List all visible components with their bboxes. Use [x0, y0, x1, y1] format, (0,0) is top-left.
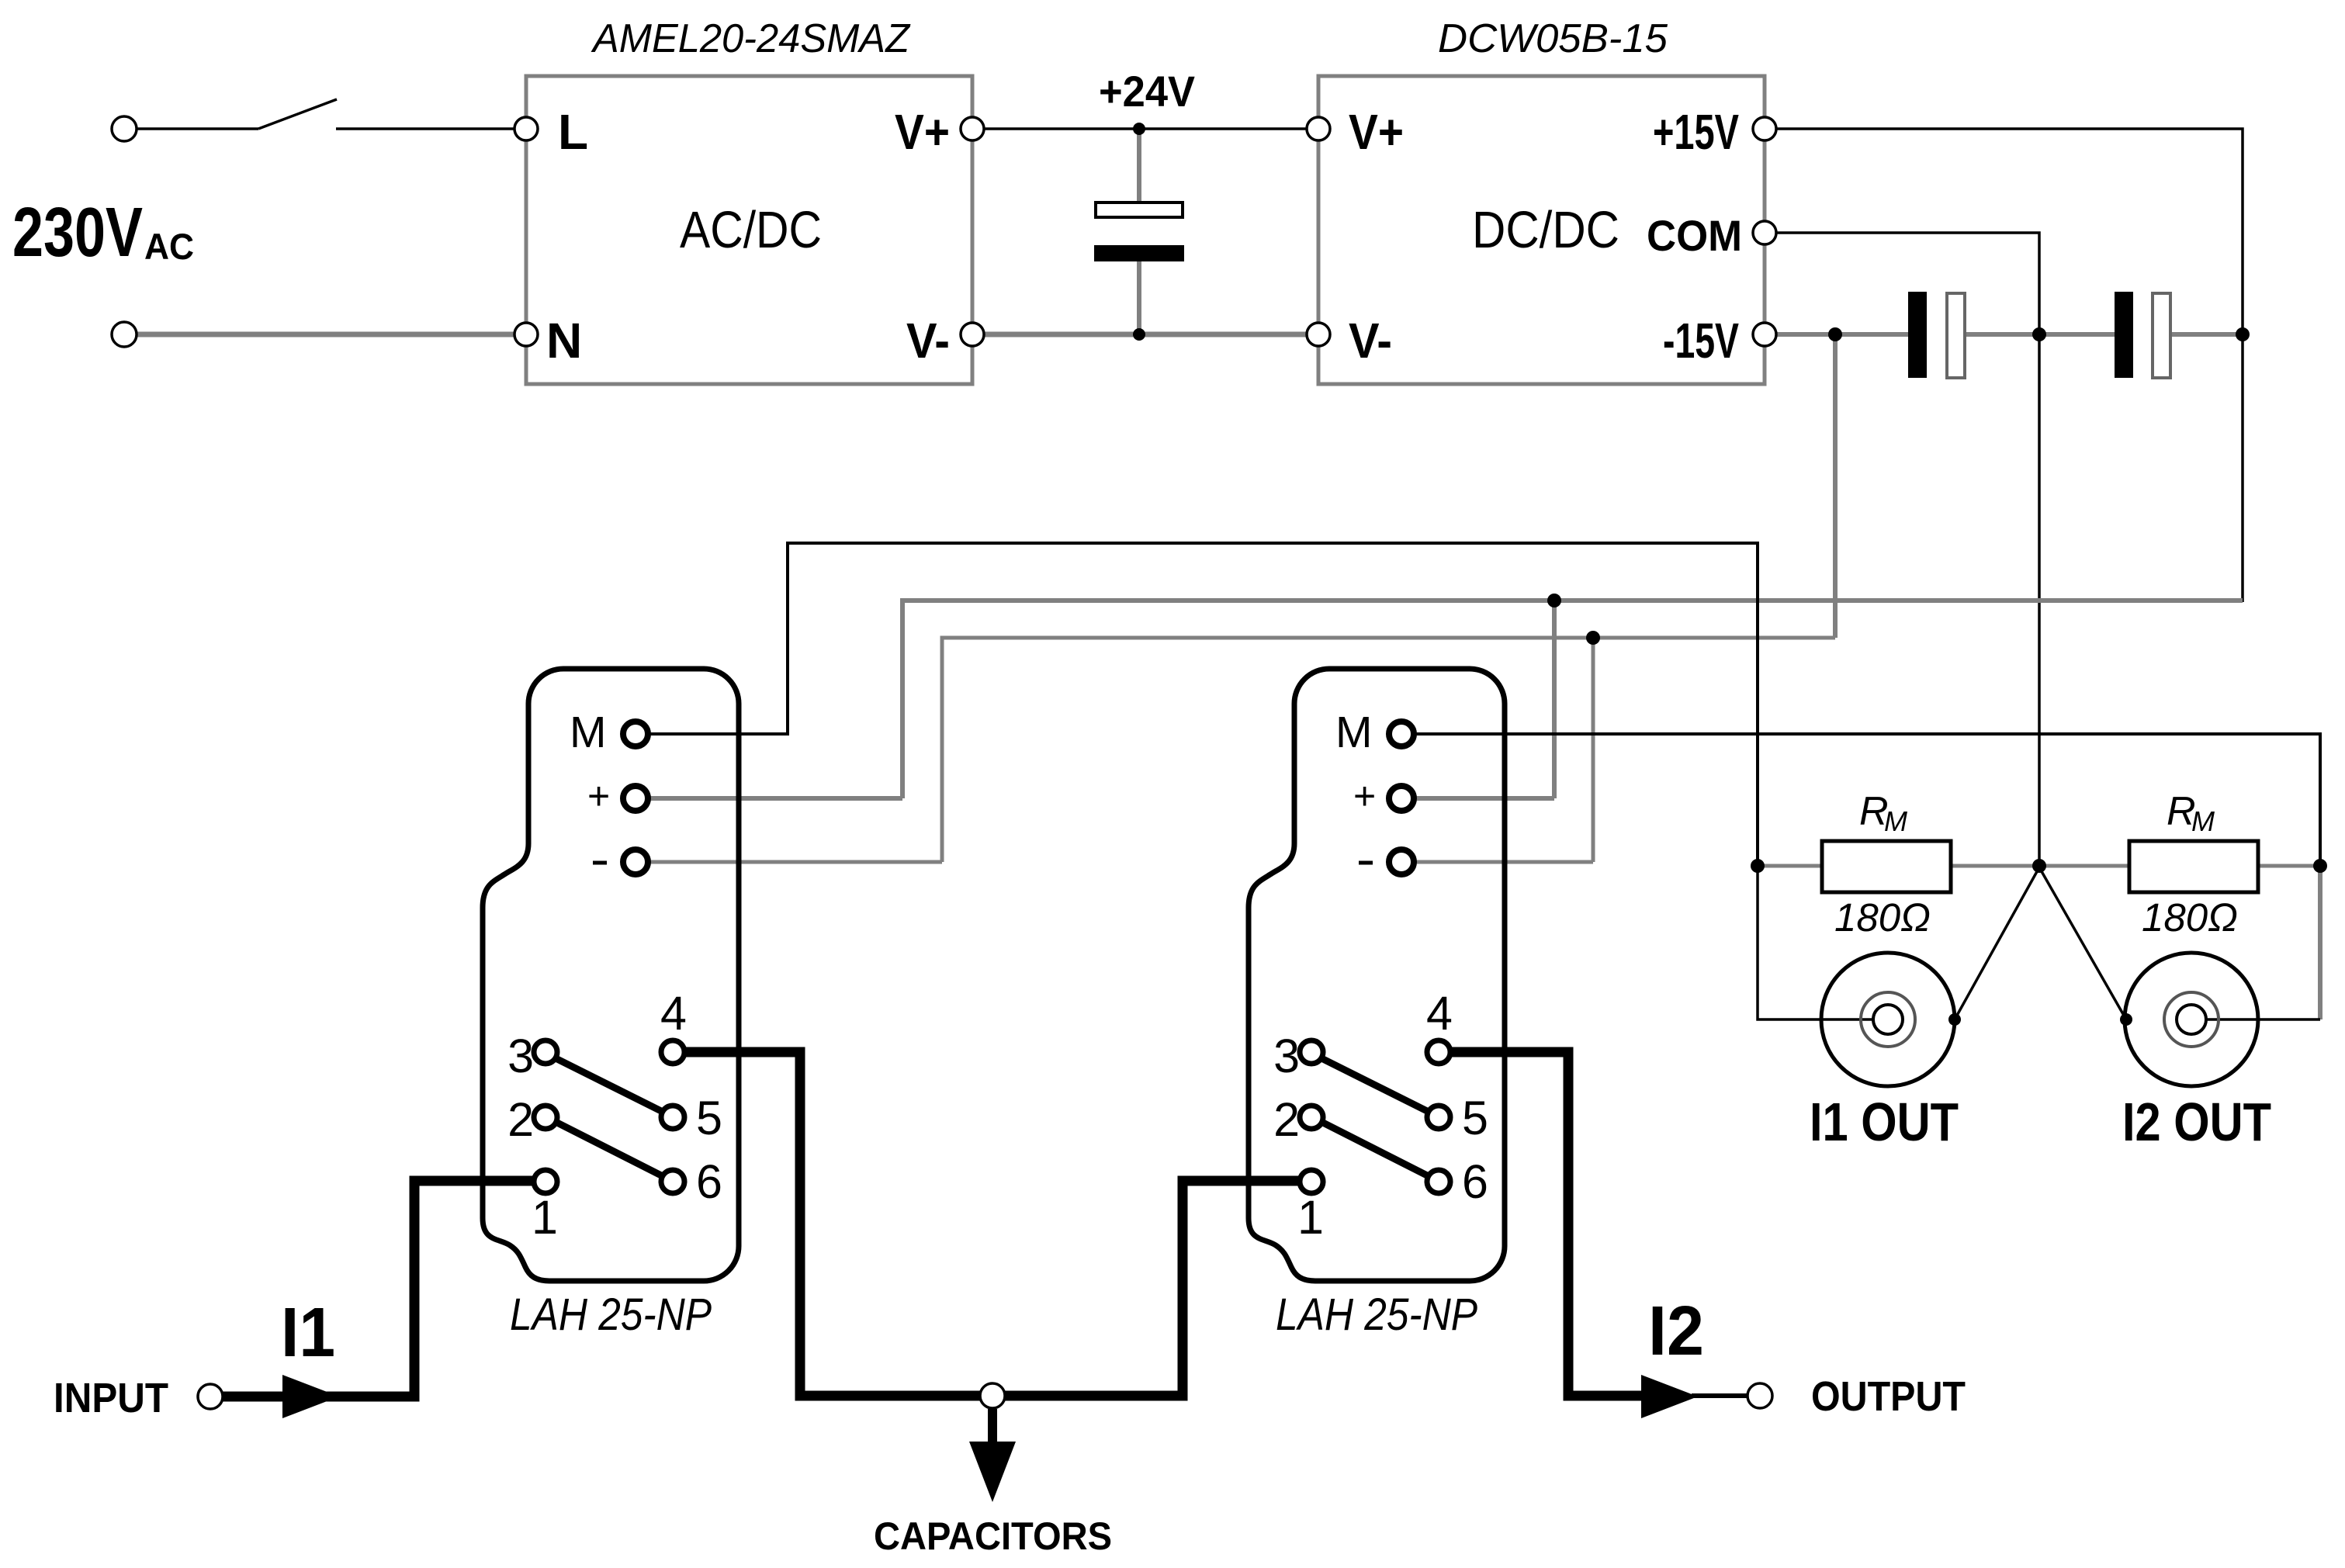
svg-text:5: 5 [696, 1092, 722, 1144]
terminal OUTPUT [1747, 1383, 1772, 1408]
arrow I1 current [282, 1375, 339, 1418]
svg-text:I2 OUT: I2 OUT [2122, 1092, 2271, 1152]
wire +15V right and down [1777, 129, 2243, 602]
capacitor C2 plate right [1947, 293, 1965, 378]
arrow I2 current [1641, 1375, 1698, 1418]
wire transducer T1 pin M measuring bus [647, 543, 1758, 866]
pin -15V [1753, 323, 1776, 346]
wire 230V N to pin N [137, 332, 514, 337]
svg-text:OUTPUT: OUTPUT [1811, 1373, 1966, 1420]
wire +24V node to capacitor C1 [1137, 129, 1141, 204]
junction RM rail right [2313, 859, 2327, 873]
current transducer T1 LAH 25-NP [483, 669, 739, 1340]
svg-text:AC: AC [144, 226, 194, 267]
wire transducer T2 pin - [1413, 860, 1593, 864]
svg-text:+24V: +24V [1099, 67, 1195, 116]
pin V+ in [1307, 117, 1330, 140]
AC/DC converter U1 box [526, 76, 972, 384]
svg-text:V-: V- [1349, 313, 1392, 369]
wire transducer T2 pin + [1413, 796, 1554, 801]
svg-text:4: 4 [660, 987, 687, 1040]
junction +15V at capacitors [2236, 327, 2250, 341]
svg-text:L: L [558, 104, 588, 160]
svg-text:+15V: +15V [1653, 104, 1739, 160]
resistor RM1 [1822, 841, 1951, 892]
arrow to capacitors [988, 1409, 997, 1445]
svg-text:DCW05B-15: DCW05B-15 [1438, 16, 1668, 61]
svg-text:AMEL20-24SMAZ: AMEL20-24SMAZ [591, 16, 911, 61]
pin N [514, 323, 538, 346]
wire capacitor C1 to V- rail [1137, 260, 1141, 334]
wire COM to BNC shields [1955, 867, 2126, 1019]
pin V- in [1307, 323, 1330, 346]
svg-text:LAH 25-NP: LAH 25-NP [510, 1289, 712, 1340]
pin V- out [961, 323, 984, 346]
svg-text:V+: V+ [1349, 104, 1404, 160]
terminal 230V N [112, 322, 137, 347]
svg-text:COM: COM [1647, 211, 1742, 260]
junction COM at capacitors [2032, 327, 2046, 341]
capacitor C1 plate top [1096, 202, 1183, 217]
svg-text:V-: V- [906, 313, 950, 369]
capacitor C3 plate left [2115, 292, 2133, 378]
capacitor C1 plate bottom [1094, 245, 1184, 261]
resistor RM2 [2129, 841, 2258, 892]
capacitor C2 plate left [1908, 292, 1927, 378]
DC/DC converter U2 box [1318, 76, 1765, 384]
svg-text:I2: I2 [1648, 1293, 1704, 1370]
junction BNC I1 right [1948, 1013, 1961, 1026]
svg-text:1: 1 [532, 1191, 558, 1244]
junction -15V branch [1828, 327, 1842, 341]
junction +24V [1133, 123, 1145, 135]
svg-text:180Ω: 180Ω [1834, 895, 1931, 940]
pin COM [1753, 221, 1776, 244]
wire -15V to capacitor C2 [1777, 332, 1910, 337]
wire +15V rail branch to transducer T2 pin + [1552, 601, 1557, 798]
wire T1 pin4 to capacitors node primary conductor [684, 1052, 1301, 1396]
pin L [514, 117, 538, 140]
wire 230V L to switch [137, 127, 258, 130]
terminal 230V L [112, 116, 137, 141]
svg-text:DC/DC: DC/DC [1472, 201, 1619, 259]
wire V+ to DC/DC V+ (node +24V) [984, 127, 1307, 130]
wire T2 pin4 to OUTPUT primary conductor [1450, 1052, 1645, 1396]
wire transducer T1 pin + [647, 796, 902, 801]
svg-text:I1: I1 [281, 1294, 335, 1372]
wire -15V rail to transducer T1 pin - [942, 638, 1835, 862]
svg-text:M: M [2191, 805, 2215, 837]
svg-text:I1 OUT: I1 OUT [1810, 1092, 1959, 1152]
svg-text:2: 2 [507, 1093, 534, 1146]
terminal INPUT [198, 1384, 223, 1409]
svg-text:N: N [546, 313, 582, 369]
junction +15V rail branch [1547, 594, 1561, 607]
junction -15V rail branch [1586, 631, 1600, 645]
svg-text:6: 6 [696, 1155, 722, 1208]
wire V- to DC/DC V- [984, 332, 1307, 337]
svg-text:+: + [587, 774, 610, 818]
wire COM right and down to measuring node [1777, 233, 2039, 866]
junction RM rail middle COM [2032, 859, 2046, 873]
wire INPUT primary conductor [223, 1181, 535, 1397]
wire RM measuring rail [1758, 864, 2320, 868]
wire capacitor C2 to COM node [1963, 332, 2116, 337]
svg-text:180Ω: 180Ω [2142, 895, 2238, 940]
terminal CAPACITORS [980, 1383, 1005, 1408]
BNC connector I1 OUT [1821, 953, 1955, 1086]
junction RM rail left [1751, 859, 1765, 873]
current transducer T2 LAH 25-NP [1249, 669, 1505, 1340]
svg-text:M: M [1884, 805, 1907, 837]
switch S1 blade [258, 99, 337, 129]
svg-text:AC/DC: AC/DC [680, 201, 822, 259]
svg-text:CAPACITORS: CAPACITORS [874, 1514, 1112, 1558]
junction +24V at V- rail [1133, 328, 1145, 341]
junction BNC I2 left [2120, 1013, 2132, 1026]
capacitor C3 plate right [2153, 293, 2170, 378]
wire switch to pin L [336, 127, 514, 130]
svg-text:INPUT: INPUT [54, 1375, 168, 1421]
wire transducer T2 pin M measuring bus [1413, 734, 2320, 866]
svg-text:M: M [570, 708, 606, 757]
wire +15V rail to transducer T1 pin + [902, 601, 2243, 798]
svg-text:V+: V+ [895, 104, 950, 160]
wire capacitor C3 to +15V node [2169, 332, 2243, 337]
BNC connector I2 OUT [2125, 953, 2258, 1086]
wire measuring node to BNC I2 [2318, 864, 2322, 1019]
wire -15V branch down to rail [1833, 334, 1838, 638]
svg-text:-15V: -15V [1663, 313, 1739, 369]
svg-text:3: 3 [507, 1030, 534, 1082]
wire -15V rail branch to transducer T2 pin - [1592, 638, 1595, 862]
pin +15V [1753, 117, 1776, 140]
wire arrowhead to OUTPUT terminal [1692, 1393, 1747, 1398]
wire transducer T1 pin - [647, 860, 942, 864]
wire measuring node to BNC I1 [1758, 866, 1873, 1019]
pin V+ out [961, 117, 984, 140]
svg-text:230V: 230V [12, 194, 143, 272]
